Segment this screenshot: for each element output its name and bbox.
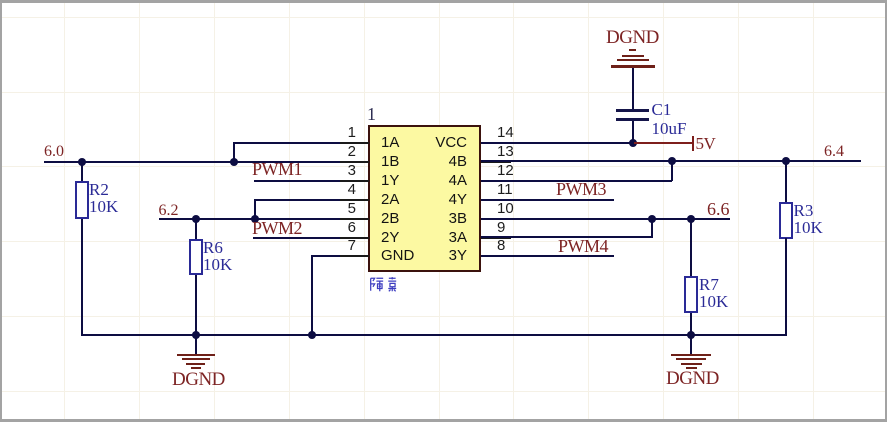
wire R7 top lead (690, 219, 692, 277)
label R3 (794, 204, 814, 218)
wire pin8 (PWM4 net) (481, 255, 614, 257)
pin 1 stub (left) (339, 142, 369, 144)
wire pin7 horizontal (311, 255, 340, 257)
junction pin7/ground rail (308, 331, 316, 339)
pin number 2 (328, 146, 356, 158)
net label 6.6 (707, 203, 730, 216)
label R2 (89, 183, 109, 197)
pin 11 stub (right) (481, 199, 511, 201)
pin number 8 (497, 240, 505, 252)
value 10K of R2 (89, 200, 118, 214)
label DGND (left) (172, 372, 225, 387)
net label PWM4 (558, 239, 608, 254)
resistor R3 body (779, 202, 793, 239)
IC pin name 3A (404, 231, 467, 245)
pin 12 stub (right) (481, 180, 511, 182)
net label 6.2 (159, 204, 179, 217)
wire R2 top lead (81, 162, 83, 182)
ground DGND (top, above C1) (629, 49, 636, 51)
IC pin name 4B (404, 155, 467, 169)
pin 13 stub (right) (481, 161, 511, 163)
wire DGND stub (left) (195, 335, 197, 354)
power port 5V bar (692, 136, 695, 151)
ground DGND (left) (177, 354, 215, 357)
pin number 11 (497, 184, 513, 196)
wire pin1 vertical drop (233, 142, 235, 162)
wire pin4 vertical drop (254, 199, 256, 221)
wire DGND to C1 top plate (632, 68, 634, 111)
resistor R7 body (684, 276, 698, 314)
pin 6 stub (left) (339, 237, 369, 239)
wire ground rail horizontal (81, 334, 787, 336)
value 10K of R3 (794, 221, 823, 235)
wire C1 bottom plate to VCC net (632, 121, 634, 144)
label C1 (652, 103, 672, 117)
junction R2/net 6.0 (78, 158, 86, 166)
pin number 4 (328, 184, 356, 196)
pin 14 stub (right) (481, 142, 511, 144)
pin 9 stub (right) (481, 237, 511, 239)
value 10K of R7 (699, 295, 728, 309)
junction R6/net 6.2 (192, 215, 200, 223)
label 5V (696, 136, 716, 151)
pin number 6 (328, 222, 356, 234)
wire net 6.6 horizontal (pin10) (481, 218, 730, 220)
resistor R2 body (75, 181, 89, 219)
junction pin4/net 6.2 (251, 215, 259, 223)
IC pin name 4Y (404, 193, 467, 207)
wire net 6.4 horizontal (pin13) (481, 160, 861, 162)
wire net 6.0 horizontal (44, 161, 340, 163)
IC pin name 1A (381, 136, 399, 150)
wire R2 bottom lead to ground rail (81, 219, 83, 335)
pin 10 stub (right) (481, 218, 511, 220)
wire pin1 horizontal (233, 142, 340, 144)
wire pin6 (PWM2 net) (253, 237, 340, 239)
pin 3 stub (left) (339, 180, 369, 182)
IC pin name 4A (404, 174, 467, 188)
wire pin7 vertical to ground rail (311, 255, 313, 335)
wire DGND stub (right) (690, 335, 692, 354)
IC comment text (blue) below body (369, 277, 403, 292)
value 10uF of C1 (652, 122, 687, 136)
pin number 3 (328, 165, 356, 177)
pin number 13 (497, 146, 514, 158)
junction R6/ground rail (192, 331, 200, 339)
wire R6 bottom lead to ground rail (195, 275, 197, 336)
wire pin11 (PWM3 net) (481, 199, 614, 201)
pin 4 stub (left) (339, 199, 369, 201)
pin 2 stub (left) (339, 161, 369, 163)
net label PWM3 (556, 182, 606, 197)
capacitor C1 top plate (616, 109, 649, 112)
junction R7/ground rail (687, 331, 695, 339)
ground DGND (right) (671, 354, 711, 357)
label R6 (203, 241, 223, 255)
pin number 10 (497, 203, 514, 215)
pin number 9 (497, 222, 505, 234)
pin number 5 (328, 203, 356, 215)
value 10K of R6 (203, 258, 232, 272)
IC pin name 3Y (404, 249, 467, 263)
junction pin12/net 6.4 (668, 157, 676, 165)
wire pin14 VCC horizontal (481, 142, 634, 144)
junction R7/net 6.6 (687, 215, 695, 223)
IC pin name 2A (381, 193, 399, 207)
wire net 6.2 horizontal to pin5 (159, 218, 341, 220)
wire pin12 vertical rise (671, 160, 673, 181)
label DGND (top) (606, 30, 659, 45)
wire R6 top lead (195, 219, 197, 240)
pin number 12 (497, 165, 514, 177)
pin 7 stub (left) (339, 255, 369, 257)
IC pin name 1Y (381, 174, 399, 188)
wire pin12 horizontal (481, 180, 672, 182)
capacitor C1 bottom plate (616, 118, 649, 121)
label R7 (699, 278, 719, 292)
wire R3 bottom lead to ground rail (785, 238, 787, 335)
junction R3/net 6.4 (782, 157, 790, 165)
net label PWM2 (252, 221, 302, 236)
IC pin name GND (381, 249, 414, 263)
wire pin9 vertical rise (651, 218, 653, 239)
pin number 14 (497, 127, 514, 139)
IC pin name 2B (381, 212, 399, 226)
junction C1/VCC net (629, 139, 637, 147)
net label 6.4 (824, 145, 844, 158)
wire pin3 (PWM1 net) (254, 180, 340, 182)
IC U1 body (hex buffer) (368, 125, 481, 272)
wire R3 top lead (785, 161, 787, 202)
net label 6.0 (44, 145, 64, 158)
wire 5V power lead (dark red) (634, 142, 692, 144)
label DGND (right) (666, 371, 719, 386)
junction pin1/net 6.0 (230, 158, 238, 166)
pin number 7 (328, 240, 356, 252)
pin 5 stub (left) (339, 218, 369, 220)
resistor R6 body (189, 239, 203, 275)
net label PWM1 (252, 162, 302, 177)
wire R7 bottom lead to ground rail (690, 313, 692, 336)
wire pin9 horizontal (481, 236, 652, 238)
IC pin name VCC (404, 136, 467, 150)
IC pin name 2Y (381, 231, 399, 245)
IC pin name 1B (381, 155, 399, 169)
wire pin4 horizontal (254, 199, 340, 201)
pin 8 stub (right) (481, 255, 511, 257)
junction pin9/net 6.6 (648, 215, 656, 223)
IC pin name 3B (404, 212, 467, 226)
pin number 1 (328, 127, 356, 139)
designator 1 of IC (367, 107, 376, 121)
